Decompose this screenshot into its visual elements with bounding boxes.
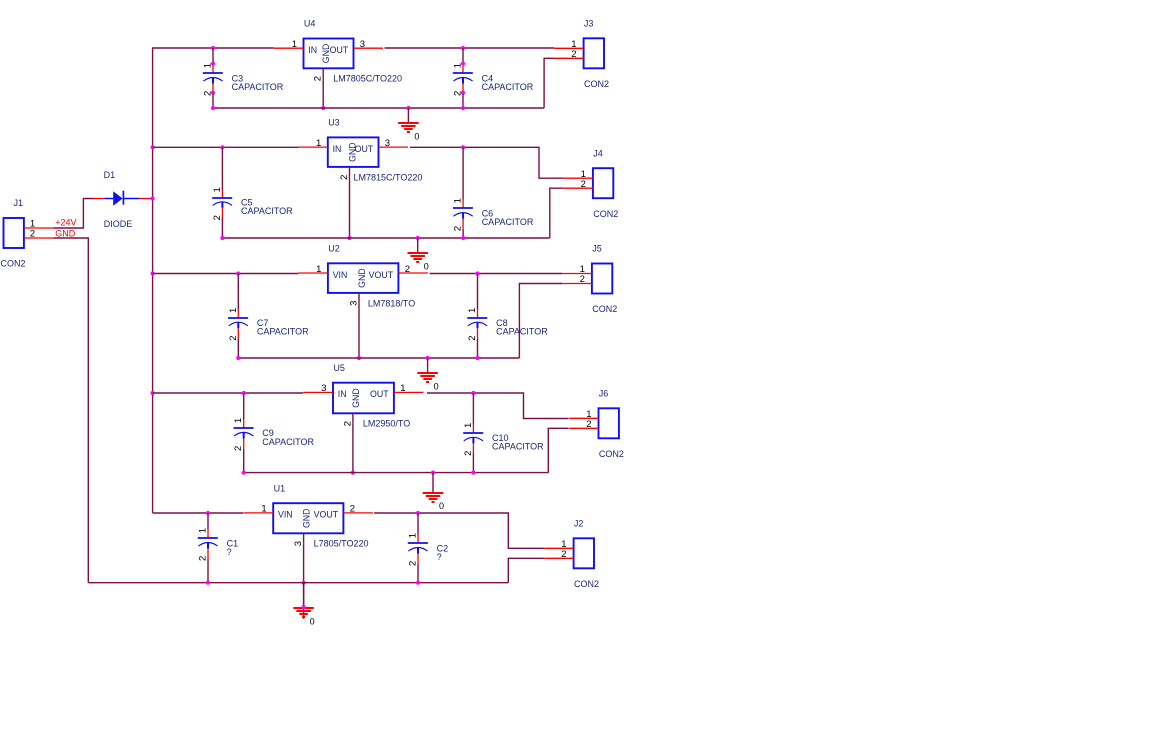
wire row5 input rail	[153, 512, 244, 514]
svg-text:2: 2	[350, 504, 355, 515]
svg-text:GND: GND	[55, 229, 75, 239]
svg-text:1: 1	[261, 504, 266, 515]
junction row2 ground symbol	[416, 236, 420, 240]
capacitor C1	[198, 530, 218, 559]
svg-text:GND: GND	[351, 388, 361, 408]
pin 2 (ground) of U5	[352, 413, 354, 423]
svg-text:CAPACITOR: CAPACITOR	[496, 327, 548, 337]
svg-text:2: 2	[198, 556, 209, 561]
svg-text:1: 1	[453, 63, 464, 68]
svg-text:2: 2	[580, 274, 585, 285]
pin 3 (output) of U4	[354, 47, 384, 49]
wire C4 bottom lead	[462, 94, 464, 108]
ground 0 (row5)	[293, 583, 314, 627]
svg-text:J4: J4	[593, 148, 603, 158]
svg-text:2: 2	[342, 421, 353, 426]
junction U1 pin3 / rail	[302, 581, 306, 585]
capacitor C3	[203, 62, 223, 95]
svg-text:0: 0	[439, 501, 444, 511]
wire J4 pin2 to ground rail	[550, 188, 564, 238]
junction bus/row4	[151, 391, 155, 395]
pin 2 of J4	[564, 187, 593, 189]
svg-text:2: 2	[561, 549, 566, 560]
junction C8 bottom	[475, 356, 479, 360]
junction U3 pin2 / rail	[347, 236, 351, 240]
wire U4 pin2 to ground rail	[322, 78, 324, 108]
svg-text:IN: IN	[333, 144, 342, 154]
wire U1 pin3 to ground rail	[303, 543, 305, 582]
voltage regulator U2	[328, 263, 399, 293]
svg-text:1: 1	[467, 308, 478, 313]
svg-text:VOUT: VOUT	[369, 270, 394, 280]
svg-text:CAPACITOR: CAPACITOR	[241, 206, 293, 216]
wire C1 bottom lead	[207, 559, 209, 583]
svg-text:J5: J5	[592, 244, 602, 254]
svg-text:2: 2	[203, 91, 214, 96]
svg-text:CAPACITOR: CAPACITOR	[262, 437, 314, 447]
wire U2 pin3 to ground rail	[358, 303, 360, 358]
connector J4	[593, 168, 613, 198]
junction bus/diode	[151, 196, 155, 200]
svg-text:0: 0	[310, 616, 315, 626]
svg-text:U3: U3	[328, 118, 340, 128]
wire row3 input rail	[153, 273, 299, 275]
svg-text:J3: J3	[584, 19, 594, 29]
svg-text:CON2: CON2	[584, 79, 609, 89]
pin 1 (input) of U3	[298, 146, 328, 148]
junction U5 pin2 / rail	[351, 471, 355, 475]
connector J2	[574, 538, 594, 568]
pin 1 of J5	[563, 273, 592, 275]
svg-text:1: 1	[316, 138, 321, 149]
junction row1 ground symbol	[406, 106, 410, 110]
svg-text:1: 1	[212, 187, 223, 192]
svg-text:CON2: CON2	[599, 449, 624, 459]
svg-text:0: 0	[434, 381, 439, 391]
svg-text:CAPACITOR: CAPACITOR	[482, 82, 534, 92]
pin 2 (ground) of U4	[322, 68, 324, 78]
junction U2 pin3 / rail	[357, 356, 361, 360]
wire C3 top lead	[212, 48, 214, 65]
capacitor C6	[453, 200, 473, 229]
svg-text:2: 2	[228, 335, 239, 340]
wire J1 pin2 (GND) down to bottom rail	[54, 238, 89, 583]
pin 2 of J3	[554, 57, 583, 59]
junction C4 top	[461, 46, 465, 50]
svg-text:1: 1	[228, 308, 239, 313]
wire row2 ground rail	[222, 237, 549, 239]
svg-text:LM7805C/TO220: LM7805C/TO220	[333, 74, 402, 84]
svg-text:CAPACITOR: CAPACITOR	[492, 442, 544, 452]
pin 3 (output) of U3	[379, 146, 409, 148]
junction C1 top	[206, 511, 210, 515]
wire C10 top lead	[472, 393, 474, 425]
svg-text:2: 2	[30, 229, 35, 240]
svg-text:GND: GND	[302, 508, 312, 528]
capacitor C2	[408, 535, 428, 564]
junction C7 top	[236, 271, 240, 275]
wire row1 ground rail	[213, 107, 544, 109]
junction bus/row2	[151, 145, 155, 149]
junction C5 bottom	[220, 236, 224, 240]
wire C8 top lead	[477, 274, 479, 310]
junction C10 bottom	[471, 471, 475, 475]
junction C7 bottom	[236, 356, 240, 360]
svg-text:J1: J1	[14, 198, 24, 208]
svg-text:2: 2	[586, 419, 591, 430]
svg-text:1: 1	[233, 418, 244, 423]
svg-text:VIN: VIN	[278, 510, 293, 520]
wire row5 output rail to J2	[374, 513, 544, 548]
junction C3 bottom	[211, 106, 215, 110]
ground 0 (row2)	[407, 238, 428, 271]
junction row4 ground symbol	[431, 471, 435, 475]
wire row1 output rail	[385, 47, 555, 49]
pin 1 (input) of U1	[244, 512, 274, 514]
svg-text:VIN: VIN	[333, 270, 348, 280]
svg-text:1: 1	[400, 383, 405, 394]
wire row4 ground rail	[244, 472, 549, 474]
svg-text:LM7815C/TO220: LM7815C/TO220	[354, 172, 423, 182]
svg-text:OUT: OUT	[330, 45, 349, 55]
pin 2 (output) of U1	[343, 512, 373, 514]
capacitor C7	[228, 309, 248, 338]
junction C8 top	[475, 271, 479, 275]
capacitor C8	[467, 309, 487, 338]
svg-text:CAPACITOR: CAPACITOR	[257, 327, 309, 337]
ground 0 (row1)	[398, 108, 419, 141]
wire row2 output rail to J4	[410, 147, 563, 178]
wire U3 pin2 to ground rail	[349, 177, 351, 238]
svg-text:2: 2	[313, 76, 324, 81]
svg-text:+24V: +24V	[55, 218, 76, 228]
svg-text:CON2: CON2	[1, 259, 26, 269]
wire row2 input rail	[153, 146, 299, 148]
svg-text:1: 1	[198, 528, 209, 533]
voltage regulator U4	[304, 39, 354, 69]
capacitor C4	[453, 62, 473, 95]
wire C2 bottom lead	[417, 564, 419, 583]
svg-text:GND: GND	[348, 142, 358, 162]
wire U5 pin2 to ground rail	[352, 423, 354, 472]
pin 2 of J6	[569, 427, 598, 429]
wire C8 bottom lead	[477, 338, 479, 358]
svg-text:DIODE: DIODE	[104, 219, 133, 229]
pin 1 of J1	[24, 227, 54, 229]
pin 2 of J1	[24, 237, 54, 239]
wire row5 ground rail	[88, 582, 508, 584]
wire J6 pin2 to ground rail	[548, 428, 568, 472]
wire row4 input rail	[153, 392, 304, 394]
wire row4 output rail to J6	[427, 393, 569, 419]
connector J3	[584, 38, 604, 68]
svg-text:CAPACITOR: CAPACITOR	[232, 82, 284, 92]
pin 3 (input) of U5	[303, 391, 333, 393]
voltage regulator U5	[333, 383, 394, 414]
svg-text:VOUT: VOUT	[314, 510, 339, 520]
junction bus/row3	[151, 271, 155, 275]
svg-text:U4: U4	[304, 19, 316, 29]
wire J1 pin1 to diode anode	[54, 199, 94, 229]
svg-text:CON2: CON2	[592, 304, 617, 314]
svg-text:3: 3	[360, 39, 365, 50]
svg-text:U2: U2	[328, 244, 340, 254]
svg-text:1: 1	[463, 423, 474, 428]
wire C4 top lead	[462, 48, 464, 65]
wire C5 bottom lead	[221, 218, 223, 238]
wire C5 top lead	[221, 147, 223, 189]
svg-text:?: ?	[437, 552, 442, 562]
svg-text:1: 1	[316, 264, 321, 275]
junction C2 bottom	[416, 581, 420, 585]
svg-text:2: 2	[571, 49, 576, 60]
svg-text:IN: IN	[308, 45, 317, 55]
svg-text:2: 2	[463, 451, 474, 456]
pin 1 (output) of U5	[394, 391, 424, 393]
svg-text:2: 2	[212, 215, 223, 220]
svg-text:1: 1	[453, 198, 464, 203]
junction C3 top	[211, 46, 215, 50]
svg-text:D1: D1	[104, 170, 116, 180]
svg-text:LM7818/TO: LM7818/TO	[368, 298, 415, 308]
wire J3 pin2 to ground rail	[544, 58, 554, 108]
svg-text:2: 2	[453, 226, 464, 231]
svg-text:2: 2	[467, 335, 478, 340]
svg-text:0: 0	[414, 131, 419, 141]
wire row3 output rail to J5	[430, 273, 563, 275]
svg-text:LM2950/TO: LM2950/TO	[363, 419, 410, 429]
junction C4 bottom	[461, 106, 465, 110]
capacitor C5	[212, 189, 232, 218]
junction U4 pin2 / rail	[321, 106, 325, 110]
junction C6 bottom	[461, 236, 465, 240]
diode D1	[94, 191, 153, 206]
voltage regulator U3	[328, 137, 379, 167]
pin 1 of J6	[569, 417, 598, 419]
wire C1 top lead	[207, 513, 209, 530]
svg-text:J6: J6	[599, 389, 609, 399]
svg-text:J2: J2	[574, 519, 584, 529]
svg-text:CON2: CON2	[593, 209, 618, 219]
capacitor C10	[463, 425, 483, 454]
ground 0 (row4)	[423, 473, 444, 512]
svg-text:1: 1	[203, 63, 214, 68]
svg-text:OUT: OUT	[370, 389, 389, 399]
pin 1 of J2	[544, 547, 573, 549]
junction C6 top	[461, 145, 465, 149]
svg-text:3: 3	[293, 541, 304, 546]
wire J5 pin2 to ground rail	[519, 284, 562, 359]
svg-text:CAPACITOR: CAPACITOR	[482, 217, 534, 227]
pin 3 (ground) of U2	[358, 293, 360, 303]
junction C1 bottom	[206, 581, 210, 585]
svg-text:U1: U1	[274, 483, 286, 493]
connector J6	[599, 408, 619, 438]
connector J1	[4, 218, 24, 248]
svg-text:L7805/TO220: L7805/TO220	[314, 539, 369, 549]
pin 3 (ground) of U1	[303, 533, 305, 543]
svg-text:GND: GND	[357, 268, 367, 288]
svg-text:CON2: CON2	[574, 579, 599, 589]
svg-text:2: 2	[453, 91, 464, 96]
wire row3 ground rail	[238, 357, 519, 359]
wire C7 top lead	[237, 274, 239, 310]
svg-text:3: 3	[321, 383, 326, 394]
svg-text:3: 3	[349, 301, 360, 306]
svg-text:GND: GND	[321, 44, 331, 64]
svg-text:3: 3	[385, 138, 390, 149]
svg-text:2: 2	[405, 264, 410, 275]
junction C9 bottom	[242, 471, 246, 475]
svg-text:?: ?	[227, 547, 232, 557]
capacitor C9	[234, 420, 254, 449]
pin 1 (input) of U2	[298, 272, 328, 274]
svg-text:2: 2	[233, 446, 244, 451]
wire C7 bottom lead	[237, 338, 239, 358]
pin 1 of J4	[564, 177, 593, 179]
pin 2 (output) of U2	[398, 272, 428, 274]
svg-text:2: 2	[408, 561, 419, 566]
junction C10 top	[471, 391, 475, 395]
wire C3 bottom lead	[212, 94, 214, 108]
svg-text:0: 0	[424, 261, 429, 271]
junction row3 ground symbol	[426, 356, 430, 360]
svg-text:2: 2	[581, 179, 586, 190]
wire C9 top lead	[243, 393, 245, 420]
pin 2 of J2	[544, 557, 573, 559]
wire row1 input rail	[152, 47, 274, 49]
connector J5	[592, 264, 612, 294]
pin 2 (ground) of U3	[349, 167, 351, 177]
pin 1 of J3	[554, 47, 583, 49]
wire main input bus vertical	[152, 48, 154, 513]
svg-text:1: 1	[408, 533, 419, 538]
svg-text:IN: IN	[338, 389, 347, 399]
junction C5 top	[220, 145, 224, 149]
svg-text:1: 1	[292, 39, 297, 50]
pin 1 (input) of U4	[274, 47, 304, 49]
wire C10 bottom lead	[472, 454, 474, 473]
ground 0 (row3)	[417, 358, 438, 391]
wire U1 pin3 rail to ground symbol	[303, 583, 305, 608]
voltage regulator U1	[273, 503, 343, 533]
wire C6 top lead	[462, 147, 464, 200]
wire C9 bottom lead	[243, 449, 245, 473]
junction C2 top	[416, 511, 420, 515]
junction C9 top	[242, 391, 246, 395]
wire J2 pin2 to ground rail	[508, 558, 544, 582]
pin 2 of J5	[563, 283, 592, 285]
wire C2 top lead	[417, 513, 419, 535]
svg-text:2: 2	[339, 175, 350, 180]
svg-text:U5: U5	[333, 363, 345, 373]
wire C6 bottom lead	[462, 229, 464, 238]
